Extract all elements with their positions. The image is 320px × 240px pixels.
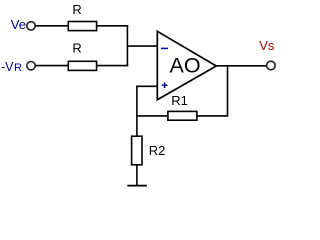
resistor R2 xyxy=(132,136,142,165)
op-amp AO xyxy=(157,31,216,100)
wire op-amp non-inverting input to node xyxy=(136,85,157,87)
wire resistor R top to junction xyxy=(97,25,129,27)
wire resistor R1 to node xyxy=(136,115,168,117)
op-amp non-inverting input marker + xyxy=(162,82,168,88)
wire resistor R2 to ground xyxy=(136,165,138,186)
svg-text:Ve: Ve xyxy=(11,17,26,32)
svg-text:R1: R1 xyxy=(171,93,188,108)
resistor R (bottom) xyxy=(68,61,96,70)
wire Ve terminal to resistor R top xyxy=(35,25,68,27)
op-amp inverting input marker - xyxy=(161,47,168,49)
wire junction to op-amp inverting input xyxy=(127,45,157,47)
svg-text:R2: R2 xyxy=(149,143,166,158)
terminal Vs xyxy=(267,61,276,70)
wire resistor R bottom to junction xyxy=(97,65,129,67)
wire junction vertical joining both R outputs xyxy=(126,25,128,66)
svg-text:-VR: -VR xyxy=(1,60,22,74)
resistor R1 xyxy=(168,111,197,120)
svg-text:AO: AO xyxy=(170,54,201,78)
svg-text:Vs: Vs xyxy=(259,38,275,53)
wire op-amp output to Vs terminal xyxy=(216,65,266,67)
resistor R (top) xyxy=(68,22,96,31)
ground xyxy=(127,185,147,187)
terminal Ve xyxy=(27,22,35,30)
wire feedback from output node down xyxy=(227,65,229,116)
wire -VR terminal to resistor R bottom xyxy=(35,65,68,67)
svg-text:R: R xyxy=(72,40,81,55)
wire node vertical down to resistor R2 xyxy=(136,86,138,137)
terminal -VR xyxy=(27,61,35,69)
svg-text:R: R xyxy=(72,2,81,17)
wire feedback to resistor R1 xyxy=(197,115,228,117)
